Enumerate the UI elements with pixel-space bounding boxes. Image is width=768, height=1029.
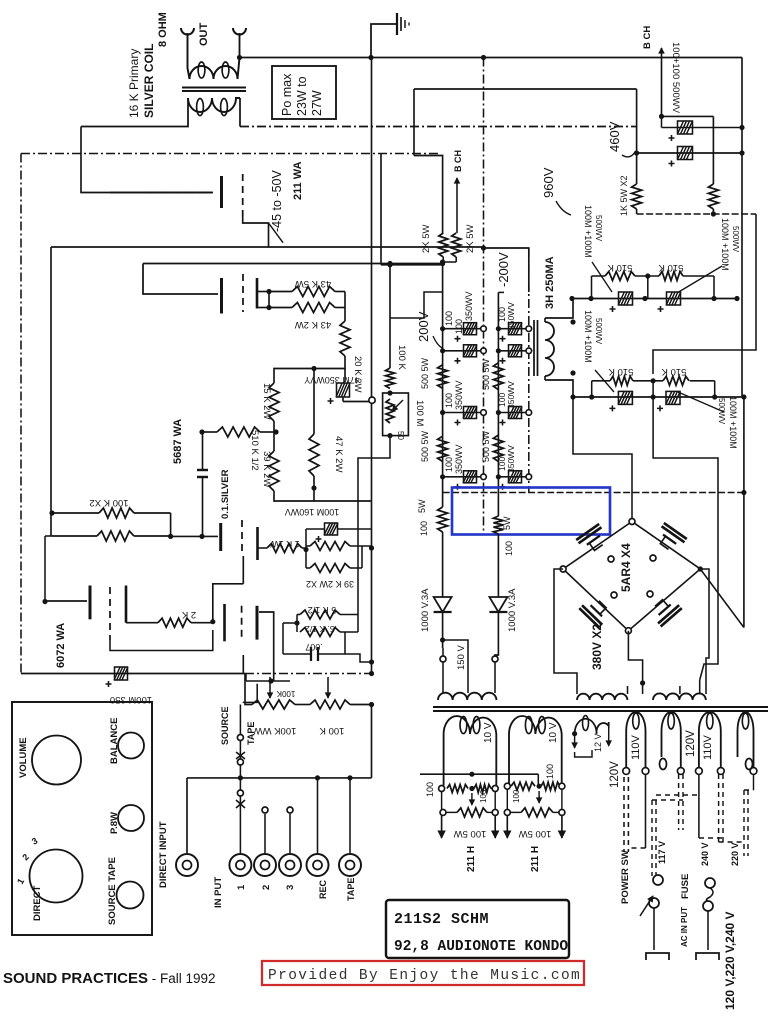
callout 460V: [622, 152, 635, 157]
tube 211 plate bar: [220, 278, 223, 314]
resistor 500 5W B2: [493, 435, 503, 462]
wire 15K to 510K node: [273, 421, 275, 432]
junction x371 y662: [369, 659, 374, 664]
junction 1K right: [303, 547, 308, 552]
wire cap 160WV leads: [338, 528, 372, 530]
wire PSU column A: [442, 292, 444, 507]
pot box 50K: [383, 393, 409, 436]
arrow heater gnd b1: [506, 815, 508, 838]
input jack 2: [254, 854, 276, 876]
label 0 terminal b: [746, 759, 753, 770]
resistor 100K bias: [386, 368, 395, 389]
wire REC drop: [317, 778, 319, 853]
heater row2 a: [440, 809, 446, 815]
wire 47M to rail: [342, 397, 344, 402]
bridge vertex right: [698, 566, 703, 571]
wire l510 right tie: [690, 380, 715, 382]
PSU row 3 junction A: [440, 410, 445, 415]
svg-text:220 V: 220 V: [730, 842, 740, 866]
winding 110V c: [699, 712, 721, 768]
resistor 100K X2 lower: [97, 531, 134, 541]
wire hum pots bottom tie: [442, 257, 444, 262]
wire bridge right diag: [700, 569, 744, 628]
winding 380V a: [577, 694, 627, 700]
input jack REC: [307, 854, 329, 876]
mains drop pair 7: [743, 790, 745, 856]
wire u510 right tie: [683, 275, 714, 277]
arrow heater gnd a1: [441, 815, 443, 838]
terminal circle source2: [237, 759, 243, 765]
wire bias bottom path: [358, 436, 390, 520]
svg-text:510 K: 510 K: [658, 262, 683, 273]
svg-text:.5. K 1/2: .5. K 1/2: [305, 624, 337, 634]
wire T1 primary left lead: [81, 98, 188, 127]
svg-text:1: 1: [236, 884, 247, 890]
input jack IN PUT: [176, 854, 198, 876]
terminal circle source: [237, 735, 243, 741]
knob VOLUME: [32, 736, 81, 785]
capacitor l510 c1: [618, 391, 632, 404]
PSU row 3 wires: [443, 412, 484, 414]
callout pointer -45 to -50V: [269, 223, 284, 243]
mains drop 8: [753, 774, 755, 790]
wire pair to 5687: [171, 535, 218, 537]
resistor 15K 2W: [269, 383, 279, 421]
resistor 20K 2W: [340, 321, 350, 356]
mains drop pair 6: [718, 774, 720, 842]
wire 43K right tie: [344, 292, 346, 322]
wire B+ rail y126 dashed: [240, 126, 637, 128]
PSU row 1 junction R: [526, 326, 532, 332]
PSU row 3 junction mid: [481, 410, 487, 416]
svg-text:211S2 SCHM: 211S2 SCHM: [394, 911, 489, 928]
junction y214: [711, 211, 716, 216]
svg-text:211 H: 211 H: [530, 846, 541, 872]
junction 460 upper: [659, 114, 664, 119]
svg-text:50: 50: [396, 431, 405, 440]
PSU row 2 junction R: [526, 348, 532, 354]
svg-text:47 K 2W: 47 K 2W: [333, 436, 344, 472]
svg-text:120V: 120V: [685, 730, 697, 757]
terminal circle jack3: [287, 807, 293, 813]
svg-text:350WV: 350WV: [506, 302, 516, 330]
wire rail y247: [51, 246, 484, 248]
callout 960V: [556, 201, 571, 215]
svg-text:500WV: 500WV: [731, 226, 740, 253]
svg-text:SOURCE TAPE: SOURCE TAPE: [107, 857, 118, 925]
wire x358 vertical: [357, 458, 359, 520]
junction 47K bottom: [311, 485, 316, 490]
svg-text:47M 350WVY: 47M 350WVY: [304, 375, 360, 385]
pot2 wiper arrow: [327, 677, 329, 698]
svg-text:43 K 5W: 43 K 5W: [295, 278, 331, 289]
svg-text:100 K: 100 K: [396, 345, 407, 370]
svg-text:100K: 100K: [276, 689, 295, 698]
bridge vertex top: [629, 519, 635, 525]
resistor 100K X2 upper: [99, 508, 134, 518]
mains drop pair 3: [651, 800, 653, 876]
wire choke bottom: [545, 380, 573, 397]
knob DIRECT selector: [30, 850, 83, 903]
svg-text:100: 100: [545, 764, 555, 779]
svg-text:2 K: 2 K: [181, 609, 196, 620]
diode 1000V 3A right: [489, 597, 507, 612]
output terminal hook left: [181, 28, 194, 35]
heater row1 right circle: [492, 786, 498, 792]
svg-text:DIRECT: DIRECT: [32, 885, 43, 921]
wire y214 dashed: [637, 213, 756, 215]
svg-text:110V: 110V: [630, 734, 642, 760]
svg-text:Provided By Enjoy the Music.co: Provided By Enjoy the Music.com: [268, 968, 581, 984]
capacitor 100M 350 on rail: [115, 667, 128, 680]
heater row1 left: [439, 786, 445, 792]
transformer core: [433, 706, 768, 708]
svg-text:IN PUT: IN PUT: [213, 877, 224, 908]
resistor 39K 2W X2 lower: [310, 564, 350, 573]
resistor 5 K 1/2 upper: [300, 610, 340, 619]
wire pair right tie: [170, 513, 172, 536]
svg-text:23W to: 23W to: [295, 76, 309, 116]
junction top rail x483: [481, 55, 486, 60]
callout box Po max: [272, 66, 336, 119]
wire 15K from node: [274, 369, 314, 384]
mains cross wire b: [652, 799, 683, 801]
PSU row 4 cap right: [509, 471, 522, 483]
svg-text:12 V: 12 V: [593, 733, 603, 752]
svg-text:5W: 5W: [502, 516, 512, 530]
wire jack3 stub: [289, 814, 291, 853]
svg-text:211 H: 211 H: [466, 846, 477, 872]
output terminal hook right: [233, 28, 246, 35]
svg-text:460V: 460V: [607, 121, 622, 152]
rectifier tube bottom-left: [579, 595, 612, 628]
AC input bracket left: [646, 953, 669, 960]
heater row2 feed: [504, 783, 510, 789]
junction rail x371 y674: [369, 671, 374, 676]
svg-text:100: 100: [504, 541, 514, 556]
wire bridge right vert: [700, 569, 709, 680]
wire left dashdot rail x21: [20, 154, 22, 674]
wire 6072 cathode a lead: [126, 622, 158, 624]
winding 12V: [575, 719, 597, 734]
resistor 2K cathode: [158, 618, 191, 627]
PSU row 4 junction mid: [481, 474, 487, 480]
junction 43K left bottom: [266, 305, 271, 310]
PSU row 4 cap left: [464, 471, 477, 483]
input jack TAPE: [339, 854, 361, 876]
capacitor 460V lower: [678, 147, 693, 160]
svg-text:100M 160WV: 100M 160WV: [285, 507, 340, 517]
front panel outline: [12, 702, 152, 935]
knob BALANCE: [118, 733, 144, 759]
tube 211 grid dash lower: [242, 274, 244, 312]
wire T1 primary right lead: [239, 98, 241, 127]
junction l510 mid: [651, 378, 656, 383]
PSU row 1 cap left: [464, 323, 477, 335]
PSU row 3 junction R: [526, 410, 532, 416]
resistor 1 K 1W: [267, 544, 302, 553]
capacitor 460V upper: [678, 121, 693, 134]
wire choke top: [545, 299, 573, 319]
arrow heater center a: [471, 793, 473, 805]
wire diode left bottom: [442, 612, 444, 648]
PSU row 4 junction A: [440, 474, 445, 479]
choke 3H 250MA coil: [545, 322, 554, 376]
wire PSU column B: [497, 292, 499, 516]
potentiometer 2K 5W a: [439, 233, 448, 257]
input jack 1: [229, 854, 251, 876]
label 0 terminal a: [660, 759, 667, 770]
svg-text:39 K 2W X2: 39 K 2W X2: [306, 579, 354, 589]
tube 211 filament bar: [256, 278, 259, 309]
svg-text:240 V: 240 V: [700, 842, 710, 866]
arrow heater center b: [538, 791, 540, 803]
PSU row 1 junction mid: [481, 326, 487, 332]
PSU row 1 cap right: [509, 323, 522, 335]
svg-text:500WV: 500WV: [594, 318, 603, 345]
winding 120V b: [662, 712, 681, 768]
wire jack2 stub: [264, 814, 266, 853]
wire 5687 cathode riser: [242, 556, 244, 584]
wire u510 left tie: [591, 276, 593, 299]
potentiometer 2K 5W b: [452, 233, 461, 257]
svg-text:100 5W: 100 5W: [519, 828, 552, 839]
svg-text:211 WA: 211 WA: [292, 161, 304, 200]
svg-text:500 5W: 500 5W: [420, 357, 430, 389]
junction 43K left top: [266, 289, 271, 294]
wire bridge bottom drop: [628, 631, 642, 683]
svg-text:10 V: 10 V: [483, 722, 494, 743]
wire jack1 drop: [239, 778, 241, 790]
capacitor 47M 350WV: [337, 383, 350, 397]
wire heater feed: [420, 773, 538, 775]
winding 10V b: [509, 716, 562, 786]
PSU row 4 junction R: [526, 474, 532, 480]
svg-text:B CH: B CH: [453, 150, 463, 172]
svg-text:100M +100M: 100M +100M: [583, 310, 593, 363]
transformer terminals: [623, 768, 630, 775]
wire 200V corner: [390, 292, 443, 318]
wire l510 left tie: [591, 381, 593, 397]
svg-text:B CH: B CH: [642, 26, 653, 49]
potentiometer 100 K: [310, 700, 350, 709]
svg-text:500WV: 500WV: [594, 215, 603, 242]
PSU row 4 junction B: [496, 474, 501, 479]
junction node at OUT secondary: [237, 55, 242, 60]
svg-text:20 K 2W: 20 K 2W: [352, 356, 363, 392]
junction pair right: [168, 534, 173, 539]
junction plate line x390: [387, 261, 392, 266]
wire between pots: [295, 704, 310, 706]
wire 39K bottom: [274, 491, 314, 501]
svg-text:10 V: 10 V: [548, 722, 559, 743]
wire ground rail y674: [21, 673, 245, 675]
arrow heater gnd a2: [494, 815, 496, 838]
tube 6072 grid bar b: [256, 606, 259, 640]
wire .007 to rail: [345, 654, 372, 662]
svg-text:BALANCE: BALANCE: [109, 718, 120, 764]
resistor 510K l2: [663, 376, 689, 385]
svg-text:AC IN PUT: AC IN PUT: [680, 907, 689, 947]
junction heater row1 center: [469, 786, 474, 791]
wire l510 to winding: [653, 397, 718, 680]
wire hum pot top: [414, 156, 443, 234]
junction y368 x314: [311, 366, 316, 371]
junction pair left: [49, 510, 54, 515]
wire input rail y777: [187, 777, 372, 779]
AC input bracket right: [696, 953, 719, 960]
svg-text:960V: 960V: [541, 167, 556, 198]
tube 5687 cathode bar: [256, 527, 259, 560]
resistor 39K 2W: [269, 451, 279, 491]
junction 5K node: [294, 620, 299, 625]
tube 5687 plate bar: [219, 523, 222, 551]
arrow 12V left: [574, 734, 576, 748]
svg-text:350WV: 350WV: [506, 381, 516, 409]
svg-text:TAPE: TAPE: [246, 722, 256, 745]
knob P.8W: [118, 805, 144, 831]
tube 211 grid lead: [146, 192, 213, 194]
svg-text:100M +100M: 100M +100M: [720, 218, 730, 271]
wire heater col a: [441, 792, 443, 810]
fuse symbol: [705, 878, 715, 888]
svg-text:1000 V.3A: 1000 V.3A: [507, 588, 518, 632]
svg-text:5 K 1/2: 5 K 1/2: [308, 605, 337, 615]
resistor 510K u1: [605, 272, 635, 281]
wire 960V rail x483: [483, 58, 485, 535]
svg-text:DIRECT INPUT: DIRECT INPUT: [158, 821, 169, 888]
arrow B CH top: [661, 48, 663, 116]
junction x743 y492: [741, 490, 746, 495]
svg-text:350WV: 350WV: [454, 380, 464, 410]
wire 20K to node: [314, 356, 345, 369]
tube cathode circles bridge: [608, 556, 614, 562]
tube 6072 envelope b: [241, 606, 243, 640]
svg-text:100: 100: [444, 393, 454, 408]
svg-text:100: 100: [425, 782, 435, 797]
junction top rail x371: [368, 55, 373, 60]
svg-text:100M +100M: 100M +100M: [728, 396, 738, 449]
PSU row 2 cap left: [464, 345, 477, 357]
rectifier tube bottom-right: [648, 594, 682, 627]
resistor 1K 5W X2 left: [632, 184, 642, 209]
resistor 100 5W right: [493, 516, 503, 534]
wire pot2 to rail x371: [350, 704, 372, 706]
mains cross wire a: [628, 847, 645, 849]
svg-text:FUSE: FUSE: [680, 874, 691, 899]
junction 380V CT: [640, 680, 645, 685]
svg-text:VOLUME: VOLUME: [18, 737, 29, 778]
winding 110V a: [626, 712, 645, 768]
svg-text:100: 100: [512, 789, 521, 803]
svg-text:SOURCE: SOURCE: [220, 706, 230, 745]
svg-text:100 5W: 100 5W: [454, 828, 487, 839]
junction y264 x390: [387, 262, 392, 267]
svg-text:500 5W: 500 5W: [420, 430, 430, 462]
svg-text:510 K: 510 K: [608, 366, 633, 377]
svg-text:1000 V.3A: 1000 V.3A: [420, 588, 431, 632]
svg-text:510 K 1/2: 510 K 1/2: [249, 430, 260, 471]
svg-text:92,8 AUDIONOTE KONDO: 92,8 AUDIONOTE KONDO: [394, 939, 568, 955]
arrow 12V right: [608, 722, 610, 746]
output transformer T1 core: [182, 87, 246, 89]
junction choke bottom: [570, 370, 575, 375]
potentiometer 50K: [386, 399, 394, 423]
svg-text:5687 WA: 5687 WA: [172, 419, 184, 464]
svg-text:SILVER COIL: SILVER COIL: [142, 44, 156, 118]
resistor 500 5W A1: [438, 365, 448, 389]
junction cap B right: [739, 150, 744, 155]
junction grid a: [42, 599, 47, 604]
bridge vertex left: [560, 566, 566, 572]
svg-text:350WV: 350WV: [464, 291, 474, 321]
svg-text:.007: .007: [305, 642, 323, 652]
svg-text:350WV: 350WV: [454, 444, 464, 474]
heater row2 b: [504, 809, 510, 815]
svg-text:100: 100: [444, 311, 454, 326]
svg-text:100M 350: 100M 350: [110, 694, 152, 705]
wire 211 bias lead: [243, 216, 269, 247]
wire right rail drop x743: [743, 397, 745, 628]
svg-text:2K 5W: 2K 5W: [421, 224, 432, 253]
svg-text:3H 250MA: 3H 250MA: [544, 256, 556, 309]
mains drop 5: [698, 774, 700, 838]
wire 510K lower rail: [573, 396, 744, 398]
tube 211 plate feed: [143, 264, 218, 295]
wire grid rail y154 dashed: [21, 153, 441, 155]
PSU row 1 junction B: [496, 326, 501, 331]
wire cap A row: [662, 115, 714, 117]
callout l510 right: [678, 392, 724, 412]
wire riser x243: [242, 556, 244, 584]
wire input jack drop x187: [186, 778, 188, 853]
rectifier tube top-left: [576, 524, 610, 556]
svg-text:-45 to -50V: -45 to -50V: [270, 169, 284, 232]
wire dashed rail y492: [443, 492, 744, 494]
wire -200V corner: [498, 291, 504, 293]
winding 150V: [438, 693, 496, 700]
junction rail x483 y248: [481, 245, 486, 250]
svg-text:1 K 1W: 1 K 1W: [270, 539, 300, 549]
svg-text:100+100 500WV: 100+100 500WV: [670, 42, 681, 114]
svg-text:100 K: 100 K: [319, 725, 344, 736]
winding 380V b: [653, 693, 706, 700]
junction heater feed a: [469, 772, 474, 777]
svg-text:200V: 200V: [416, 311, 431, 342]
svg-text:6072 WA: 6072 WA: [55, 623, 67, 668]
svg-text:100 K X2: 100 K X2: [89, 497, 128, 508]
callout u510 right: [677, 266, 722, 293]
wire y264 left: [381, 264, 443, 266]
tube 6072 envelope a: [109, 587, 111, 640]
junction heater row2 center: [537, 784, 542, 789]
wire fuse down: [707, 911, 709, 950]
capacitor .007: [310, 647, 312, 661]
output transformer T1 secondary coil: [188, 33, 240, 79]
capacitor u510 c2: [667, 292, 681, 305]
junction 460V node: [634, 150, 639, 155]
svg-text:SOUND PRACTICES - Fall 1992: SOUND PRACTICES - Fall 1992: [3, 970, 216, 987]
mains drop pair 1: [623, 777, 625, 852]
resistor 500 5W B1: [493, 363, 503, 390]
winding 10V a: [444, 716, 497, 785]
PSU row 1 wires: [443, 328, 484, 330]
svg-text:150 V: 150 V: [456, 645, 467, 670]
callout l510: [595, 370, 614, 392]
wire 6072 grid b lead: [259, 612, 274, 681]
wire 460 node up: [636, 89, 638, 153]
svg-text:43 K 2W: 43 K 2W: [295, 319, 331, 330]
